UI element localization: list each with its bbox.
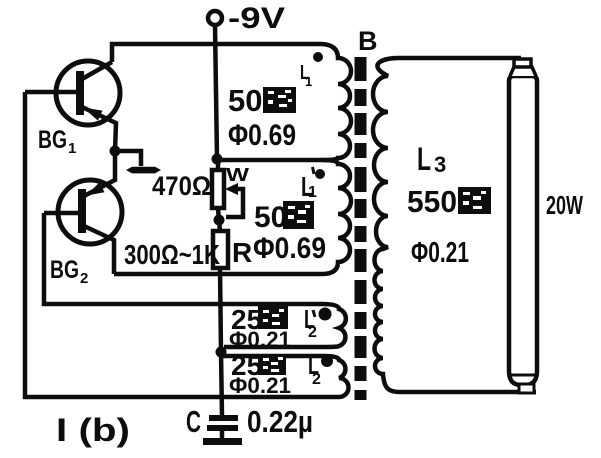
svg-text:470Ω: 470Ω	[152, 171, 211, 201]
potentiometer W 470 ohm	[152, 159, 249, 222]
node pot bottom	[214, 215, 225, 226]
wire -9V feed down to center tap	[215, 25, 217, 159]
svg-text:3: 3	[434, 152, 446, 177]
node L2'/L2 junction	[216, 347, 227, 358]
wire BG1 base feedback (left rail + bottom rail)	[25, 92, 324, 397]
svg-text:50: 50	[228, 83, 262, 118]
core B (dashed)	[358, 26, 378, 400]
node emitter junction	[110, 146, 121, 157]
svg-text:1: 1	[308, 184, 317, 201]
svg-text:300Ω~1K: 300Ω~1K	[124, 239, 220, 270]
svg-text:2: 2	[312, 371, 321, 388]
wire spine below R	[220, 268, 221, 352]
resistor R 300ohm~1K	[124, 220, 252, 270]
svg-text:1: 1	[305, 74, 312, 89]
svg-text:Φ0.21: Φ0.21	[411, 237, 469, 269]
lamp fluorescent tube 20W	[509, 59, 583, 393]
wire center-tap line	[217, 158, 322, 163]
svg-text:I (b): I (b)	[56, 412, 130, 448]
svg-text:L: L	[417, 141, 431, 177]
winding L2'	[224, 304, 346, 352]
svg-text:Φ0.69: Φ0.69	[228, 119, 296, 152]
svg-text:2: 2	[308, 324, 317, 341]
winding L3 secondary	[373, 58, 536, 392]
wire top rail (BG1 collector to L1 top)	[112, 44, 322, 62]
svg-text:1: 1	[68, 140, 76, 157]
terminal -9V	[208, 2, 285, 35]
winding L1	[228, 44, 351, 160]
winding L2	[221, 350, 349, 398]
svg-text:W: W	[226, 165, 249, 185]
svg-text:2: 2	[80, 270, 88, 287]
svg-text:R: R	[232, 237, 252, 268]
transistor BG1	[25, 61, 120, 151]
wire BG2 base feedback	[44, 213, 322, 304]
svg-text:Φ0.21: Φ0.21	[229, 373, 291, 398]
svg-text:20W: 20W	[546, 190, 583, 220]
svg-text:BG: BG	[50, 256, 79, 284]
ground (common emitter bar)	[115, 151, 161, 173]
svg-text:550: 550	[407, 184, 457, 219]
svg-text:Φ0.21: Φ0.21	[229, 327, 291, 352]
svg-text:Φ0.69: Φ0.69	[253, 232, 326, 265]
svg-text:C: C	[186, 404, 201, 439]
winding L1'	[114, 160, 351, 274]
svg-text:50: 50	[254, 201, 287, 234]
svg-text:-9V: -9V	[228, 2, 285, 35]
wire spine to capacitor	[221, 352, 222, 416]
svg-text:0.22µ: 0.22µ	[247, 404, 313, 439]
capacitor C 0.22u	[186, 404, 313, 445]
svg-text:B: B	[358, 26, 378, 56]
node center tap	[212, 154, 223, 165]
svg-text:BG: BG	[38, 126, 67, 154]
transistor BG2	[44, 151, 122, 274]
